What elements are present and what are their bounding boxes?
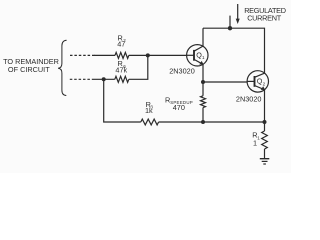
svg-text:2: 2 bbox=[263, 81, 266, 86]
transistor Q1 bbox=[187, 45, 208, 66]
wire dashed stub top bbox=[70, 54, 95, 56]
wire dashed stub bottom bbox=[70, 78, 94, 80]
svg-text:2N3020: 2N3020 bbox=[169, 66, 195, 75]
wire R6 up to node bbox=[129, 55, 148, 79]
svg-text:1k: 1k bbox=[145, 106, 153, 115]
node Q1 emitter junction bbox=[201, 80, 205, 84]
svg-text:CURRENT: CURRENT bbox=[247, 14, 282, 23]
wire node to Q2 base bbox=[203, 81, 247, 83]
node speedup bottom junction bbox=[201, 120, 205, 124]
brace bbox=[58, 40, 67, 95]
wire left drop bbox=[104, 79, 141, 122]
svg-text:1: 1 bbox=[253, 138, 257, 147]
svg-text:470: 470 bbox=[173, 103, 185, 112]
node Q2 emitter junction bbox=[263, 120, 267, 124]
svg-text:2N3020: 2N3020 bbox=[236, 95, 262, 104]
wire Q1 collector bbox=[202, 28, 204, 46]
wire input stub bbox=[229, 16, 231, 29]
resistor R2 47 bbox=[115, 52, 129, 58]
wire bottom rail bbox=[159, 121, 265, 123]
resistor R1 1 bbox=[264, 122, 266, 131]
ground bbox=[260, 159, 270, 164]
node 47k drop junction bbox=[102, 77, 106, 81]
resistor R6 47k bbox=[115, 76, 129, 82]
resistor R3 1k bbox=[141, 119, 159, 125]
wire Q2 emitter bbox=[264, 90, 266, 122]
node R2/R6 junction bbox=[146, 53, 150, 57]
transistor Q2 bbox=[247, 71, 268, 92]
wire R2 to Q1 base bbox=[129, 54, 187, 56]
svg-text:1: 1 bbox=[257, 135, 260, 140]
node input junction bbox=[228, 26, 232, 30]
wire Q1 emitter to node bbox=[202, 64, 204, 82]
wire top rail bbox=[203, 28, 265, 73]
svg-text:47k: 47k bbox=[115, 66, 127, 75]
svg-text:OF CIRCUIT: OF CIRCUIT bbox=[8, 65, 50, 74]
resistor RSPEEDUP 470 bbox=[202, 82, 204, 96]
regulated current arrow bbox=[237, 4, 239, 20]
svg-text:1: 1 bbox=[202, 55, 205, 60]
svg-text:47: 47 bbox=[117, 40, 125, 49]
